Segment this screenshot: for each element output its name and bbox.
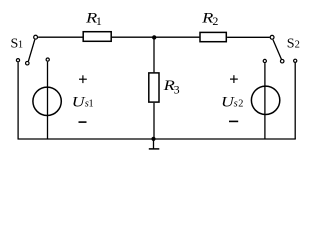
resistor R1	[83, 32, 111, 42]
wire node A to R2	[154, 36, 199, 38]
plus sign Us1	[79, 75, 87, 83]
wire R3 to ground node	[153, 103, 155, 139]
svg-text:1: 1	[18, 40, 23, 51]
resistor R3	[149, 73, 159, 102]
svg-text:3: 3	[174, 82, 180, 96]
svg-text:S: S	[287, 37, 295, 52]
minus sign Us1	[79, 121, 87, 123]
svg-text:s: s	[234, 99, 238, 110]
svg-text:1: 1	[89, 98, 94, 109]
wire S1 right contact down through source Us1	[47, 62, 49, 139]
voltage source Us1	[33, 87, 61, 115]
ground	[149, 139, 160, 149]
switch S2	[263, 35, 297, 63]
minus sign Us2	[229, 120, 238, 122]
plus sign Us2	[230, 75, 238, 83]
switch S1	[16, 35, 49, 65]
wire S2 right contact down	[294, 63, 296, 139]
node A junction dot	[152, 35, 156, 39]
svg-text:2: 2	[212, 14, 218, 28]
svg-text:2: 2	[295, 40, 300, 51]
wire R2 to S2	[227, 36, 270, 38]
bottom wire	[18, 138, 296, 140]
wire S1 to R1	[38, 36, 83, 38]
voltage source Us2	[251, 86, 279, 114]
svg-text:2: 2	[238, 98, 243, 109]
wire left branch: S1 left contact down	[17, 62, 19, 139]
svg-text:1: 1	[96, 14, 102, 28]
wire node A down to R3	[153, 37, 155, 72]
resistor R2	[200, 32, 226, 41]
wire S2 left contact down through source Us2	[264, 63, 266, 139]
ground node junction dot	[151, 137, 155, 141]
wire R1 to node A	[112, 36, 155, 38]
